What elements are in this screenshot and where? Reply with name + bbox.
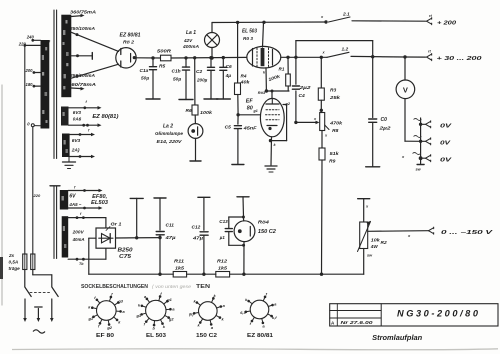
wire heater 2A a	[70, 134, 92, 136]
svg-text:EZ 80/81: EZ 80/81	[247, 333, 273, 339]
socket diagram EL503	[159, 296, 160, 300]
wire switch bypass loop	[296, 40, 373, 42]
svg-text:42V: 42V	[183, 38, 193, 43]
svg-text:g1: g1	[88, 316, 94, 321]
terminal 0...-150V	[429, 228, 434, 231]
switch S1b 1.2	[327, 52, 349, 57]
resistor R3 25k	[320, 57, 322, 88]
capacitor C1a 50u	[152, 58, 154, 67]
svg-text:R11: R11	[174, 259, 184, 265]
transformer primary winding	[41, 40, 50, 129]
svg-text:La 2: La 2	[163, 124, 173, 130]
node -150V takeoff T	[136, 198, 138, 237]
svg-text:4W: 4W	[370, 244, 379, 249]
svg-text:g3: g3	[135, 313, 141, 318]
svg-text:230: 230	[43, 39, 51, 44]
ground (transformer core)	[68, 157, 70, 162]
svg-text:0V: 0V	[440, 123, 452, 129]
svg-text:R5: R5	[159, 63, 166, 69]
lamp La2 glow lamp	[188, 124, 203, 139]
tube 150C2 Roe4	[237, 196, 249, 198]
svg-text:(k): (k)	[189, 311, 194, 316]
capacitor C4 2u2	[295, 57, 297, 84]
svg-text:400mA: 400mA	[182, 44, 199, 49]
wire EL503 cathode down	[265, 68, 267, 91]
rectifier Gr1 B250C75	[96, 228, 116, 248]
wire primary tap 180	[34, 85, 41, 87]
svg-text:6V: 6V	[69, 193, 76, 199]
svg-text:240: 240	[26, 35, 35, 40]
svg-text:B250: B250	[118, 247, 133, 253]
svg-text:V: V	[403, 86, 408, 95]
wire 0V jack bus	[420, 118, 422, 164]
wire HV center tap	[71, 55, 92, 57]
mains ~ symbol	[33, 330, 45, 333]
tube EF80 Roe1	[260, 98, 284, 136]
svg-text:R2: R2	[381, 240, 387, 246]
svg-text:C1a: C1a	[140, 68, 149, 74]
svg-text:2.1: 2.1	[342, 11, 350, 17]
resistor R5 500R	[161, 55, 172, 61]
terminal +200	[427, 18, 432, 21]
svg-text:47µ: 47µ	[192, 236, 204, 242]
wire EL503 grid to top rail	[263, 22, 264, 47]
resistor R9 51k	[321, 131, 323, 149]
svg-text:6V3: 6V3	[73, 110, 82, 115]
wire negative rail	[89, 273, 173, 275]
svg-text:EZ 80(81): EZ 80(81)	[92, 114, 118, 120]
mains plug pins	[24, 299, 26, 319]
svg-text:EF: EF	[246, 99, 254, 105]
svg-text:Nr 27.6.00: Nr 27.6.00	[341, 320, 374, 325]
scan edge mark	[0, 257, 3, 279]
svg-text:C5: C5	[225, 124, 232, 130]
svg-text:N G 3 0 - 2 0 0 / 8 0: N G 3 0 - 2 0 0 / 8 0	[397, 309, 478, 319]
wire fuse to switch	[24, 270, 26, 287]
socket diagram 150C2	[212, 298, 214, 302]
terminal 0V a	[421, 123, 425, 125]
svg-text:47µ: 47µ	[164, 235, 176, 241]
wire heater 4A5 b	[68, 207, 99, 209]
wire HV tap5 (360V)	[71, 87, 82, 90]
terminal +30...200	[427, 54, 432, 57]
svg-text:EZ 80/81: EZ 80/81	[120, 32, 141, 38]
wire EF80 cathode to ground	[270, 137, 273, 165]
svg-text:200V: 200V	[72, 230, 85, 236]
svg-text:40mA: 40mA	[72, 237, 85, 243]
transformer bias winding 200V/40mA	[62, 216, 68, 257]
svg-text:C75: C75	[119, 254, 131, 260]
transformer heater winding 6V3/2A	[62, 134, 70, 158]
svg-text:10k: 10k	[371, 238, 380, 243]
svg-text:( von unten gese: ( von unten gese	[152, 284, 191, 289]
svg-text:g2: g2	[106, 325, 112, 330]
wire heater 2A b	[70, 156, 92, 158]
svg-text:2µ2: 2µ2	[298, 85, 311, 91]
capacitor C6 4u	[222, 58, 224, 67]
switch S1a 2.1	[324, 20, 327, 23]
svg-text:k,f: k,f	[272, 315, 277, 320]
wire heater EZ a	[69, 107, 99, 109]
wire bias winding bottom to Gr1	[68, 258, 106, 260]
svg-text:80: 80	[247, 106, 253, 112]
svg-text:Rö 3: Rö 3	[243, 36, 253, 41]
wire mains feed right	[32, 127, 34, 254]
scan fold line left edge	[1, 85, 3, 305]
svg-text:40k: 40k	[239, 80, 250, 85]
svg-text:g2: g2	[168, 317, 174, 322]
svg-text:360/75mA: 360/75mA	[70, 10, 96, 15]
socket diagram EZ80/81	[263, 297, 265, 301]
svg-text:C0: C0	[381, 117, 388, 123]
svg-text:45nF: 45nF	[242, 125, 257, 131]
resistor R4 40k	[237, 22, 239, 83]
wire Gr1 plus output	[116, 237, 161, 239]
svg-text:25k: 25k	[329, 95, 341, 101]
wire anode rail to switch S1b	[281, 56, 327, 58]
svg-text:TEN: TEN	[196, 284, 211, 290]
scan streak bottom	[12, 348, 498, 351]
lamp La1	[205, 33, 220, 48]
svg-text:Rö4: Rö4	[258, 220, 269, 226]
svg-text:0,5A: 0,5A	[9, 259, 19, 264]
wire EF80 g2/C4 node to R8 wiper	[296, 121, 316, 123]
svg-text:R8: R8	[332, 128, 339, 134]
svg-text:470k: 470k	[329, 121, 342, 127]
switch S2 mains double pole	[25, 287, 31, 297]
wire mains feed left	[24, 45, 26, 254]
wire EF80 grid to R4 node	[238, 114, 260, 116]
svg-text:C6: C6	[226, 64, 232, 70]
capacitor C5 45nF	[237, 115, 239, 124]
svg-text:EF 80: EF 80	[96, 333, 114, 339]
transformer Tr1 core	[53, 10, 55, 159]
node primary 0 tap	[31, 124, 34, 127]
svg-text:µ1: µ1	[219, 235, 226, 240]
svg-text:360/75mA: 360/75mA	[68, 82, 96, 87]
capacitor C0 2u2	[372, 57, 374, 118]
svg-text:150 C2: 150 C2	[196, 333, 217, 339]
svg-text:R3: R3	[330, 87, 337, 93]
svg-text:200µ: 200µ	[196, 78, 208, 83]
wire EF80 anode up	[271, 91, 273, 98]
svg-text:C13: C13	[219, 219, 228, 224]
svg-text:0V: 0V	[440, 140, 451, 146]
svg-text:2A): 2A)	[71, 148, 80, 154]
wire HV tap4 to rectifier anode	[71, 64, 118, 78]
svg-text:2µ2: 2µ2	[378, 125, 391, 131]
svg-text:EL 503: EL 503	[242, 29, 257, 35]
capacitor C13	[229, 216, 244, 218]
svg-text:250/100mA: 250/100mA	[69, 26, 95, 31]
resistor R6 100k	[194, 58, 196, 105]
wire primary tap 220	[25, 44, 41, 46]
transformer heater winding 6V/4A5	[60, 190, 68, 210]
resistor R1 100k	[287, 57, 289, 74]
wire primary tap 200	[34, 72, 41, 74]
fuse Si1	[23, 254, 27, 270]
svg-text:0V: 0V	[440, 157, 452, 163]
wire HV tap2 to rectifier anode	[71, 32, 118, 51]
wire heater EZ b	[69, 124, 99, 126]
svg-text:C12: C12	[192, 224, 201, 230]
potentiometer R8 470k	[320, 113, 325, 131]
wire primary tap 240	[33, 39, 41, 41]
wire heater 4A5 a	[68, 190, 99, 192]
svg-text:6,3: 6,3	[240, 310, 246, 315]
svg-text:6V3: 6V3	[72, 138, 81, 144]
svg-text:0A6: 0A6	[73, 117, 82, 122]
svg-text:C1b: C1b	[172, 69, 181, 75]
tube EZ80/81 Roe2	[116, 48, 136, 68]
svg-text:träge: träge	[9, 266, 21, 271]
svg-text:R6: R6	[186, 108, 192, 114]
svg-text:E14, 220V: E14, 220V	[157, 139, 183, 144]
svg-text:180: 180	[26, 82, 34, 87]
potentiometer R2 10k	[358, 198, 370, 200]
tube EL503 Roe3	[247, 46, 281, 68]
svg-text:50µ: 50µ	[141, 76, 149, 82]
capacitor C2 200u	[210, 58, 212, 67]
svg-text:C11: C11	[166, 222, 175, 228]
capacitor C11 47u	[154, 197, 166, 199]
svg-text:2x: 2x	[8, 253, 15, 258]
fuse Si2	[31, 254, 35, 270]
svg-text:1k5: 1k5	[218, 266, 227, 272]
voltmeter V	[396, 80, 415, 99]
wire bias winding top to Gr1	[68, 217, 106, 219]
wire Gr1 minus to rail	[89, 237, 96, 239]
svg-text:EL 503: EL 503	[146, 333, 166, 339]
svg-text:C4: C4	[299, 93, 306, 99]
svg-text:Rö 2: Rö 2	[123, 40, 134, 46]
svg-text:Glimmlampe: Glimmlampe	[155, 131, 183, 136]
svg-text:200: 200	[25, 68, 34, 73]
svg-text:Gr 1: Gr 1	[111, 222, 122, 228]
svg-text:EF80,: EF80,	[92, 194, 107, 200]
resistor R11 1k5	[173, 272, 186, 278]
svg-text:4µ: 4µ	[225, 73, 232, 79]
wire R2 wiper to -150V jack	[368, 230, 428, 233]
title block frame	[330, 304, 498, 326]
svg-text:R9: R9	[329, 159, 336, 165]
svg-text:R12: R12	[217, 259, 227, 265]
transformer HV secondary winding	[61, 15, 71, 98]
svg-text:Rö3: Rö3	[258, 90, 266, 95]
wire rectifier output rail	[136, 57, 160, 59]
svg-text:51k: 51k	[330, 151, 339, 157]
terminal 0V b	[421, 140, 425, 142]
svg-text:50µ: 50µ	[173, 76, 181, 82]
svg-text:220: 220	[33, 193, 41, 198]
svg-text:1.2: 1.2	[342, 46, 349, 52]
svg-text:R1: R1	[279, 67, 285, 72]
svg-text:EL503: EL503	[91, 200, 108, 206]
svg-text:g1: g1	[253, 109, 258, 113]
svg-text:C2: C2	[196, 69, 202, 75]
wire V- to 0V bus	[405, 140, 421, 142]
svg-text:+ 200: + 200	[437, 20, 456, 26]
capacitor C1b 50u	[185, 58, 187, 67]
svg-text:150 C2: 150 C2	[258, 229, 276, 235]
svg-text:0 ... −150 V: 0 ... −150 V	[441, 230, 493, 236]
terminal 0V c	[421, 157, 425, 159]
resistor R12 1k5	[216, 272, 230, 278]
svg-text:R4: R4	[241, 74, 247, 79]
wire EF80 screen bracket	[283, 104, 287, 106]
ground (EF80 cathode)	[265, 165, 277, 167]
svg-text:100k: 100k	[200, 110, 213, 115]
svg-text:+ 30 ... 200: + 30 ... 200	[437, 56, 482, 62]
socket diagram EF80	[109, 297, 110, 301]
capacitor C12 47u	[198, 196, 210, 198]
svg-text:La 1: La 1	[186, 30, 196, 36]
svg-text:500R: 500R	[157, 48, 172, 54]
svg-text:1k5: 1k5	[175, 266, 184, 272]
transformer heater winding 6V3/0A6	[61, 107, 69, 126]
svg-text:SOCKELBESCHALTUNGEN: SOCKELBESCHALTUNGEN	[81, 284, 148, 290]
svg-text:g3: g3	[117, 298, 123, 303]
wire HV tap1 (360V)	[71, 15, 82, 18]
wire top rail (after lamp)	[212, 21, 326, 24]
svg-text:4A5 ~: 4A5 ~	[68, 202, 81, 208]
svg-text:Stromlaufplan: Stromlaufplan	[372, 335, 422, 342]
svg-text:g1: g1	[166, 297, 172, 302]
